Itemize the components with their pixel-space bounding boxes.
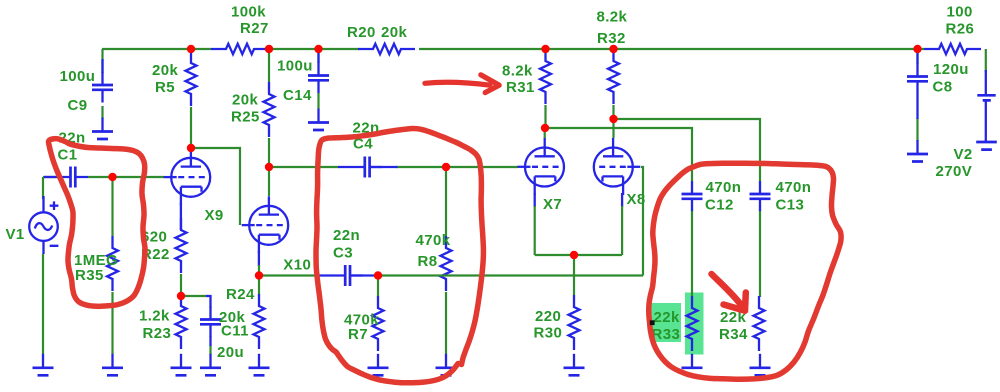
- svg-text:8.2k: 8.2k: [597, 9, 628, 26]
- triode X9: [164, 148, 211, 205]
- svg-text:270V: 270V: [936, 163, 973, 180]
- node dot R31 top: [541, 45, 549, 53]
- ground V1: [33, 354, 54, 376]
- svg-text:X7: X7: [543, 196, 562, 213]
- capacitor C3: [317, 265, 378, 286]
- node dot X8 plate: [609, 115, 617, 123]
- ground C11: [200, 354, 221, 376]
- voltage source V1: [29, 196, 58, 254]
- wire R24 branch: [258, 276, 260, 296]
- wire R31 to X7 plate: [544, 105, 547, 138]
- annotation red loop left: [49, 139, 146, 307]
- resistor R31: [540, 49, 551, 104]
- ground C14: [308, 109, 329, 131]
- svg-text:C3: C3: [333, 245, 353, 262]
- svg-text:R24: R24: [226, 286, 255, 303]
- svg-text:C9: C9: [68, 97, 88, 114]
- wire X10 cathode lead: [258, 251, 260, 276]
- wire X7 cathode lead: [534, 193, 536, 255]
- svg-text:V2: V2: [954, 146, 973, 163]
- resistor R32: [608, 49, 619, 104]
- wire R32 to X8 plate: [612, 105, 614, 138]
- wire R30 branch: [573, 255, 575, 295]
- ground C9: [92, 118, 113, 140]
- wire X8 plate to C13: [614, 119, 761, 181]
- resistor R26: [924, 44, 981, 54]
- node dot X7 plate: [541, 124, 549, 132]
- resistor R24: [254, 294, 265, 349]
- svg-text:R20: R20: [347, 24, 376, 41]
- wire R8 branch: [445, 167, 447, 354]
- wire C13 to R34: [759, 211, 761, 297]
- svg-text:R26: R26: [946, 21, 975, 38]
- svg-text:R5: R5: [155, 79, 175, 96]
- node dot R32 top: [609, 45, 617, 53]
- svg-text:C13: C13: [776, 197, 805, 214]
- resistor R25: [264, 49, 275, 167]
- svg-text:100k: 100k: [231, 3, 266, 20]
- svg-text:100u: 100u: [60, 68, 96, 85]
- svg-text:R7: R7: [348, 326, 368, 343]
- node dot cathode bus: [570, 251, 578, 259]
- capacitor C1: [44, 167, 88, 188]
- svg-text:22n: 22n: [333, 227, 360, 244]
- wire X7 plate to C12: [545, 128, 692, 181]
- wire cathode bus X10: [259, 274, 643, 276]
- node dot C14 top: [314, 45, 322, 53]
- highlight rect over R33 label: [652, 303, 682, 342]
- svg-text:R33: R33: [652, 326, 681, 343]
- node dot C8 top: [913, 45, 921, 53]
- resistor R20: [358, 44, 415, 54]
- ground R7: [368, 354, 389, 376]
- capacitor C14: [308, 53, 329, 93]
- ground R30: [564, 354, 585, 376]
- svg-text:20k: 20k: [381, 24, 407, 41]
- svg-text:100u: 100u: [277, 58, 313, 75]
- wire R5 to X9 plate: [190, 107, 192, 148]
- resistor R30: [569, 295, 580, 350]
- capacitor C4: [338, 157, 398, 178]
- svg-text:20k: 20k: [232, 91, 258, 108]
- svg-text:R30: R30: [534, 325, 563, 342]
- node dot X10 cathode: [255, 271, 263, 279]
- resistor R23: [176, 294, 187, 349]
- wire input node: [43, 177, 164, 199]
- svg-text:C1: C1: [58, 147, 78, 164]
- node dot R27 right: [265, 45, 273, 53]
- resistor R34: [754, 296, 765, 351]
- wire X8 cathode lead: [621, 193, 623, 255]
- svg-text:1.2k: 1.2k: [139, 308, 170, 325]
- svg-text:470k: 470k: [416, 232, 451, 249]
- svg-text:R25: R25: [231, 109, 260, 126]
- capacitor C11: [200, 307, 221, 347]
- wire R22 to R23: [180, 274, 182, 296]
- resistor R27: [211, 44, 268, 54]
- wire X7 grid: [446, 166, 518, 168]
- resistor R8: [441, 236, 452, 291]
- svg-text:470n: 470n: [706, 179, 742, 196]
- voltage source V2 battery: [976, 70, 997, 150]
- svg-text:X9: X9: [205, 207, 224, 224]
- capacitor C8: [907, 53, 928, 119]
- capacitor C9: [92, 59, 113, 103]
- wire top rail: [102, 48, 924, 50]
- svg-text:20k: 20k: [152, 62, 178, 79]
- wire cathode bus X7 X8: [535, 254, 622, 256]
- svg-text:470n: 470n: [776, 179, 812, 196]
- wire R35 branch: [111, 177, 113, 354]
- svg-text:C14: C14: [283, 87, 312, 104]
- svg-text:C12: C12: [705, 197, 734, 214]
- wire X9 cathode lead: [180, 203, 182, 230]
- node dot X10 plate: [265, 163, 273, 171]
- svg-text:V1: V1: [6, 226, 25, 243]
- wire X9 plate to X10 grid: [191, 148, 240, 225]
- svg-text:R31: R31: [506, 79, 535, 96]
- annotation red arrow at R31: [425, 75, 499, 93]
- annotation red loop middle: [316, 129, 483, 383]
- ground R35: [102, 354, 123, 376]
- resistor R5: [186, 51, 197, 106]
- wire C12 to R33: [691, 211, 693, 297]
- svg-text:R35: R35: [75, 267, 104, 284]
- wire C8 branch: [916, 49, 918, 141]
- selection handle square: [650, 320, 655, 325]
- svg-text:X10: X10: [283, 257, 311, 274]
- svg-text:120u: 120u: [933, 61, 969, 78]
- capacitor C13: [750, 181, 771, 212]
- resistor R22: [176, 218, 187, 273]
- svg-text:R8: R8: [418, 253, 438, 270]
- ground R23: [171, 354, 192, 376]
- svg-text:8.2k: 8.2k: [502, 63, 533, 80]
- node dot X9 plate: [187, 144, 195, 152]
- svg-text:R23: R23: [143, 325, 172, 342]
- svg-text:20u: 20u: [217, 344, 244, 361]
- svg-text:220: 220: [535, 308, 561, 325]
- triode X10: [242, 196, 289, 253]
- ground R33: [682, 354, 703, 376]
- node dot C3 right: [374, 271, 382, 279]
- resistor R33: [687, 296, 698, 351]
- node dot C4 right: [442, 163, 450, 171]
- wire C11 branch: [181, 296, 211, 355]
- wire R7 branch: [377, 276, 379, 297]
- node dot R5 top: [187, 45, 195, 53]
- wire V1 to ground: [42, 254, 44, 354]
- node dot input: [108, 173, 116, 181]
- wire X10 plate: [268, 167, 270, 196]
- wire X8 grid drop: [641, 167, 643, 276]
- wire C14 branch: [317, 49, 319, 109]
- annotation red arrow at R34: [712, 274, 746, 311]
- resistor R7: [373, 296, 384, 351]
- ground R8: [436, 354, 457, 376]
- svg-text:22k: 22k: [654, 309, 680, 326]
- node dot R22 bottom: [177, 292, 185, 300]
- svg-text:R34: R34: [719, 326, 748, 343]
- resistor R35: [107, 236, 118, 291]
- svg-text:X8: X8: [627, 191, 646, 208]
- svg-text:100: 100: [947, 4, 973, 21]
- svg-text:R32: R32: [597, 30, 626, 47]
- triode X7: [518, 138, 565, 195]
- highlight rect over R33 body: [685, 293, 704, 355]
- svg-text:C11: C11: [221, 322, 249, 339]
- svg-text:R27: R27: [240, 20, 269, 37]
- ground R34: [750, 354, 771, 376]
- triode X8 mirrored: [594, 138, 641, 195]
- svg-text:C8: C8: [933, 79, 953, 96]
- wire to V2: [985, 49, 987, 72]
- ground C8: [907, 140, 928, 162]
- annotation red loop right: [649, 163, 841, 379]
- capacitor C12: [682, 181, 703, 212]
- ground R24: [249, 354, 270, 376]
- wire C9 branch: [101, 49, 103, 119]
- wire C4 node: [269, 166, 446, 168]
